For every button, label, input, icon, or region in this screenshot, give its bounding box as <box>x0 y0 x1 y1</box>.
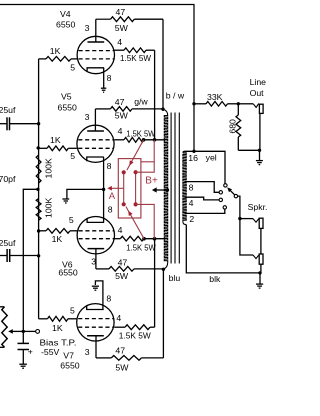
wire V7 pin8 cathode to ground <box>95 281 103 310</box>
wire NFB line from 16-ohm tap to driver (off-page left) <box>0 5 194 152</box>
svg-text:5: 5 <box>70 151 75 161</box>
svg-text:blu: blu <box>169 273 181 283</box>
svg-text:V5: V5 <box>61 92 72 102</box>
svg-text:16: 16 <box>188 153 198 163</box>
node V5 screen / B+ link <box>153 138 157 142</box>
node V6 screen / B+ link <box>153 237 157 241</box>
svg-text:5W: 5W <box>115 271 129 281</box>
wire cathode bus to ground <box>67 189 104 198</box>
wire to upper speaker jack tip <box>240 218 253 220</box>
node bias feed junction <box>36 188 39 191</box>
wire B+ arrow from center tap <box>156 189 167 191</box>
svg-text:V4: V4 <box>60 9 71 19</box>
contact A lower <box>122 202 126 206</box>
svg-text:100K: 100K <box>44 158 54 178</box>
svg-text:8: 8 <box>106 294 111 304</box>
switch SW1 common contact <box>234 194 237 197</box>
wire V6 screen line to UL tap <box>144 238 165 240</box>
resistor 33K (line out divider) <box>194 103 206 105</box>
svg-text:1K: 1K <box>50 135 61 145</box>
jack J1 line out (tip+body) <box>253 104 259 108</box>
wiper arrow of bias pot <box>13 330 24 332</box>
wire 680 bottom to jack sleeve <box>238 149 259 151</box>
svg-text:6550: 6550 <box>56 19 75 29</box>
svg-text:4: 4 <box>116 313 121 323</box>
wire red: right contact column (B+) <box>135 172 137 204</box>
wire blu primary lead vertical <box>162 269 164 358</box>
resistor 1K (V5 grid) <box>38 147 47 149</box>
contact 8 ohm (switch) <box>219 191 222 194</box>
svg-text:47: 47 <box>115 345 125 355</box>
svg-text:5W: 5W <box>115 362 129 372</box>
tube V6 6550 (inverted) <box>77 217 114 254</box>
svg-text:8: 8 <box>107 73 112 83</box>
svg-text:blk: blk <box>209 274 221 284</box>
wire V7 plate lead pin 3 <box>95 336 97 358</box>
contact 2 ohm (switch) <box>223 206 226 209</box>
capacitor bias filter (electrolytic) <box>18 342 30 344</box>
wire V6 plate lead pin 3 <box>95 249 97 269</box>
resistor 47 ohm 5W (V7 plate) <box>96 357 111 359</box>
svg-text:3: 3 <box>85 112 90 122</box>
svg-text:4: 4 <box>118 126 123 136</box>
svg-text:5W: 5W <box>115 111 129 121</box>
resistor 47 ohm 5W (V4 plate) <box>96 18 111 20</box>
resistor 100K (lower) <box>36 199 41 221</box>
svg-text:Line: Line <box>250 77 267 87</box>
node B+ center tap <box>166 188 169 191</box>
svg-text:Spkr.: Spkr. <box>248 202 268 212</box>
ground (bias cap) <box>19 363 27 365</box>
svg-text:5: 5 <box>70 62 75 72</box>
node b/w junction at primary top <box>161 108 164 111</box>
node upper cap to grid bus <box>37 122 40 125</box>
svg-text:25uf: 25uf <box>0 105 16 115</box>
contact B+ lower <box>134 202 138 206</box>
svg-text:25uf: 25uf <box>0 238 16 248</box>
node V5 screen / switch arm pivot <box>142 138 146 142</box>
resistor 1K (V6 grid) <box>39 230 46 232</box>
node speaker hot junction <box>238 217 241 220</box>
svg-text:g/w: g/w <box>134 97 148 107</box>
svg-text:70pf: 70pf <box>0 174 16 184</box>
svg-text:Out: Out <box>250 88 265 98</box>
wire red: B+ link upper <box>136 140 155 172</box>
resistor 1.5K 5W (V6 screen) <box>120 236 144 241</box>
svg-text:V7: V7 <box>63 351 74 361</box>
svg-text:6550: 6550 <box>58 103 77 113</box>
svg-text:1.5K 5W: 1.5K 5W <box>119 331 152 341</box>
wire screen bus V6 to V7 <box>154 239 156 328</box>
svg-text:4: 4 <box>189 198 194 208</box>
wire down to ground <box>259 273 261 284</box>
capacitor .25uf (lower coupling) <box>0 255 7 257</box>
wire red: left contact column (A) <box>123 172 125 204</box>
node blu junction primary bottom <box>162 268 165 271</box>
wire V5 screen line to UL tap <box>144 139 165 141</box>
jack J2 speaker upper (tip+body) <box>253 219 259 223</box>
node bias wiper junction <box>22 330 25 333</box>
wire line out jack sleeve to ground <box>259 114 261 151</box>
wire switch common to speaker jacks <box>238 196 253 255</box>
svg-text:5W: 5W <box>115 23 129 33</box>
switch arm upper (from V5 screen) <box>127 140 144 170</box>
svg-text:47: 47 <box>116 7 126 17</box>
switch SW2 body (red overlay rectangle) <box>118 159 141 218</box>
resistor 47 ohm 5W (V6 plate) <box>96 268 109 270</box>
svg-text:1.5K 5W: 1.5K 5W <box>126 242 156 252</box>
transformer T1 core <box>170 113 172 264</box>
node 33K / 680 junction <box>237 102 240 105</box>
svg-text:3: 3 <box>85 347 90 357</box>
svg-text:2: 2 <box>189 214 194 224</box>
svg-text:1K: 1K <box>50 46 61 56</box>
svg-text:47: 47 <box>118 257 128 267</box>
node V6 screen / switch arm pivot <box>142 237 146 241</box>
wire V5 plate lead pin 3 <box>94 109 96 131</box>
resistor 1.5K 5W (V4 screen) <box>124 48 146 53</box>
terminal Bias T.P. <box>36 330 40 334</box>
resistor 680 (line out divider) <box>237 104 239 115</box>
node V5 1K junction <box>37 146 40 149</box>
wire V5 pin4 screen lead <box>114 139 124 141</box>
resistor 1.5K 5W (V5 screen) <box>124 138 144 143</box>
tube V5 6550 <box>77 125 114 162</box>
wire V4 pin4 screen lead <box>114 49 124 51</box>
resistor 1K (V7 grid) <box>39 318 48 320</box>
wire 2 ohm tap <box>185 209 225 213</box>
switch SW1 wiper arm <box>230 190 235 195</box>
jack J3 speaker lower (tip+body) <box>253 255 259 259</box>
node V6 1K junction <box>37 229 40 232</box>
wire V6 pin4 screen lead <box>115 238 121 240</box>
resistor 1K (V4 grid) <box>39 58 46 60</box>
transformer T1 primary winding <box>163 109 168 262</box>
resistor 1.5K 5W (V7 screen) <box>125 325 150 330</box>
potentiometer bias adjust <box>0 306 5 308</box>
transformer T1 secondary winding <box>183 153 186 222</box>
svg-text:1K: 1K <box>52 323 63 333</box>
wire blk secondary return <box>186 225 260 273</box>
ground (V5/V6 cathode bus) <box>62 198 69 200</box>
wire screen bus V4 to V5 junction <box>154 50 156 140</box>
svg-text:A: A <box>109 191 116 202</box>
wire to line out jack tip <box>238 103 253 105</box>
svg-text:3: 3 <box>91 256 96 266</box>
wire 4 ohm tap <box>185 197 219 200</box>
wire V5/V6 cathodes pin 8 vertical <box>103 157 105 222</box>
svg-text:-55V: -55V <box>41 347 60 357</box>
svg-text:3: 3 <box>85 23 90 33</box>
svg-text:100K: 100K <box>44 198 54 218</box>
svg-text:33K: 33K <box>207 92 223 102</box>
svg-text:8: 8 <box>108 205 113 215</box>
contact A upper <box>122 170 126 174</box>
wire speaker jack sleeves to ground <box>260 229 262 273</box>
contact 16 ohm (switch) <box>224 184 227 187</box>
resistor 100K (upper) <box>36 155 41 183</box>
resistor 47 ohm 5W (V5 plate) g/w <box>95 108 110 110</box>
svg-text:1.5K 5W: 1.5K 5W <box>120 53 152 63</box>
wire b/w primary lead down to transformer top <box>162 19 164 109</box>
ground (line out) <box>256 160 263 162</box>
node NFB / 33K junction <box>192 102 195 105</box>
svg-text:B+: B+ <box>145 175 158 186</box>
wire 16 ohm tap (yel) <box>185 151 226 183</box>
wire to bias test point <box>23 330 35 332</box>
tube V4 6550 <box>77 36 114 73</box>
svg-text:6550: 6550 <box>58 268 77 278</box>
svg-text:4: 4 <box>117 37 122 47</box>
svg-text:8: 8 <box>189 183 194 193</box>
svg-text:5: 5 <box>70 305 75 315</box>
capacitor .25uf (upper coupling) <box>0 123 7 125</box>
ground (speaker return) <box>256 283 263 285</box>
contact 4 ohm (switch) <box>219 198 222 201</box>
svg-text:6550: 6550 <box>60 361 79 371</box>
node lower cap to grid bus <box>37 254 40 257</box>
svg-text:1K: 1K <box>52 234 63 244</box>
svg-text:yel: yel <box>206 153 217 163</box>
wire down to ground <box>259 150 261 160</box>
svg-text:680: 680 <box>227 119 237 134</box>
wire V4 plate lead pin 3 <box>95 19 97 42</box>
node cathode bus junction <box>102 188 105 191</box>
wire red: B+ link lower <box>136 204 155 238</box>
svg-text:b / w: b / w <box>166 90 185 100</box>
contact B+ upper <box>134 170 138 174</box>
wire red: A lead with arrow <box>112 187 124 189</box>
wire V4 cathode pin 8 <box>103 68 105 88</box>
svg-text:1.5K 5W: 1.5K 5W <box>126 128 156 138</box>
ground (V7 cathode) <box>92 285 99 287</box>
svg-text:4: 4 <box>118 225 123 235</box>
node line out ground junction <box>258 149 261 152</box>
node speaker ground junction <box>258 271 261 274</box>
ground (V4 cathode) <box>101 87 106 89</box>
node NFB takeoff on 16 ohm tap <box>192 150 195 153</box>
wire V7 pin4 screen lead <box>114 326 125 328</box>
wire bias feed line <box>23 189 38 343</box>
svg-text:47: 47 <box>115 97 125 107</box>
wire 8 ohm tap <box>185 182 219 193</box>
tube V7 6550 (inverted) <box>77 304 114 341</box>
svg-text:5: 5 <box>69 215 74 225</box>
svg-text:8: 8 <box>107 161 112 171</box>
switch arm lower (from V6 screen) <box>126 207 144 239</box>
wire grid bias bus vertical <box>38 59 40 319</box>
svg-text:+: + <box>28 346 33 356</box>
